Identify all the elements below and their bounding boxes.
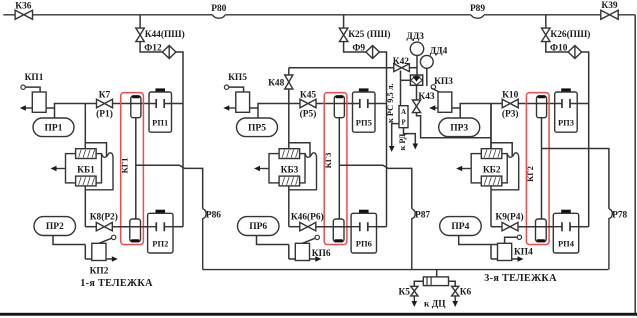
shut-off valve К25 (ПШ) [339,28,348,41]
wire: main line node to К45 [258,104,300,119]
svg-text:КП6: КП6 [312,249,331,259]
svg-text:ПР3: ПР3 [450,124,468,134]
valve К10 ((Р3)) [502,99,518,108]
wire: drop from supply pipe to К44(ПШ) [139,15,141,28]
wire: side branch to КБ1 hose [85,143,106,156]
shut-off valve К44(ПШ) [136,28,145,41]
lower brake-pipe bus [203,269,609,271]
wire: AP stem to check valve [401,79,411,81]
hose sag P89 [471,15,484,18]
svg-text:ДД3: ДД3 [406,32,424,42]
upper shoe of КБ2 [481,149,502,159]
wire: КП5 to node [250,107,258,109]
vent arrow of КБ3 [258,168,269,170]
wire: К26(ПШ) to filter Ф10 [546,42,568,52]
wire: К9(Р4) to relay РП4 [518,226,561,228]
bottom frame line [0,313,637,316]
valve K36 [15,10,32,19]
wire: K43 down to KB2 feed line [417,113,492,138]
right border drop of supply pipe [634,15,636,314]
svg-text:3-я ТЕЛЕЖКА: 3-я ТЕЛЕЖКА [484,273,557,284]
svg-text:К25 (ПШ): К25 (ПШ) [348,29,390,40]
hose sag P80 [213,15,226,18]
valve K48 [285,75,293,89]
discharge arrow below K5 [413,296,415,303]
upper piston of КГ2 [537,96,547,118]
axle cylinder unit [423,277,448,286]
wire: column to К46(Р6) [289,226,300,228]
svg-text:КП2: КП2 [90,266,109,276]
pressure sensor DD3 [416,55,418,75]
wire: column to К8(Р2) [85,226,96,228]
svg-text:ПР2: ПР2 [46,222,64,232]
lower shoe of КБ1 [76,176,97,186]
svg-text:К42: К42 [393,57,409,67]
wire: КП3 to node [452,107,460,109]
wire: check valve to K43 [416,85,418,100]
svg-text:К10: К10 [502,90,518,100]
svg-text:К26(ПШ): К26(ПШ) [550,29,590,40]
pilot circle of КП3 [431,85,435,89]
wire: ПР2 to brake column [53,236,85,245]
air distributor ПР3 [439,118,480,137]
lower piston of КГ2 [536,219,547,242]
wire: column elbow to КП4 outlet [490,245,492,260]
svg-text:Р87: Р87 [415,211,430,221]
svg-text:ПР6: ПР6 [249,222,267,232]
pilot circle of КП5 [224,85,228,89]
lower shoe of КБ3 [279,176,300,186]
pressure relay РП4 [561,210,571,214]
svg-text:Р78: Р78 [612,211,627,221]
wire: left outlet to K5 [414,281,423,286]
wire: K48 to main line [288,89,290,104]
pressure relay РП2 [156,210,166,214]
wire: column elbow to КП6 outlet [288,245,290,260]
valve К9(Р4) [502,222,518,231]
pressure relay РП1 [155,88,165,92]
vent arrow of КП2 [85,258,114,260]
air distributor ПР5 [237,118,278,137]
svg-text:К5: К5 [399,287,411,297]
wire: РП6 to manifold foot [377,226,387,228]
svg-text:(Р1): (Р1) [96,109,113,120]
vent arrow of КБ1 [55,168,66,170]
svg-text:К39: К39 [601,1,617,11]
hose loop of КБ2 [506,153,508,155]
wire: filter Ф12 output down to manifold [176,52,183,227]
check valve (square with poppet) [410,75,422,85]
svg-text:КБ3: КБ3 [281,165,299,175]
autobrake regulator AP [400,71,402,106]
wire: right outlet to K6 [449,281,456,286]
wire: РП2 to manifold foot [173,226,183,228]
wire: main line node to К10 [460,104,502,119]
valve K43 [412,100,420,113]
valve К46(Р6) [300,222,316,231]
wire: К46(Р6) to relay РП6 [316,226,359,228]
piston rod of КГ3 [338,118,340,219]
wire: bus tap to axle cylinder unit [436,270,438,277]
wire: КБ2 down to К9(Р4) [490,186,492,227]
wire: К44(ПШ) to filter Ф12 [140,42,162,52]
svg-text:Р89: Р89 [470,4,485,14]
pressure switch КП6 [295,243,309,260]
junction: brake branch at x=491 [490,104,492,149]
svg-text:Р80: Р80 [211,4,226,14]
wire: K42 line corner to K48 [288,68,290,76]
upper piston of КГ1 [131,96,141,118]
wire: rod tap to hose Р87 [339,165,412,209]
filter Ф12 [162,46,176,59]
svg-text:РП1: РП1 [152,118,168,128]
pilot circle of КП1 [21,85,25,89]
valve К7 ((Р1)) [97,99,113,108]
svg-text:ДД4: ДД4 [430,46,448,56]
vent arrow of КП5 [227,107,236,109]
brake unit КБ3 [269,154,305,183]
wire: K42 to DD junction [409,67,417,69]
svg-text:к РС 9,5 л.: к РС 9,5 л. [386,83,395,123]
wire: ПР4 to brake column [459,236,491,245]
svg-text:(Р5): (Р5) [300,109,317,120]
svg-text:КБ2: КБ2 [483,165,501,175]
pressure relay РП5 [359,88,369,92]
svg-text:1-я ТЕЛЕЖКА: 1-я ТЕЛЕЖКА [80,278,153,289]
svg-text:Ф12: Ф12 [144,44,162,54]
air distributor ПР1 [33,118,74,137]
vent arrow of КП3 [433,107,438,109]
svg-text:Р86: Р86 [206,211,221,221]
svg-text:Р: Р [402,120,406,127]
svg-text:КП5: КП5 [228,73,247,83]
brake unit КБ2 [471,154,507,183]
pressure relay РП3 [561,88,571,92]
vent arrow of КП4 [491,258,520,260]
wire: РП1 to manifold [172,103,184,105]
vent arrow of КП6 [289,258,318,260]
air distributor ПР4 [440,217,482,236]
pressure switch КП3 [438,92,452,112]
svg-text:К6: К6 [460,287,472,297]
junction: brake branch at x=289 [288,104,290,149]
piston rod of КГ1 [135,118,137,219]
pilot lever of КП4 [505,237,518,243]
wire: column elbow to КП2 outlet [84,245,86,260]
vent arrow of КП1 [24,107,33,109]
svg-text:к ДЦ: к ДЦ [424,300,446,310]
pilot lever of КП2 [99,238,112,243]
air distributor ПР6 [238,217,280,236]
wire: side branch to КБ3 hose [289,143,310,156]
svg-text:КП1: КП1 [25,73,44,83]
pressure switch КП1 [32,92,46,112]
brake cylinder group КГ1 (red outline) [121,93,144,245]
wire: KB2 feed vertical (3rd bogie) [490,104,492,149]
wire: K42 distribution line [289,67,394,69]
lower piston of КГ1 [130,219,141,242]
wire: PR4 line extension to KP4 [491,244,498,246]
valve K5 [411,286,418,296]
piston rod of КГ2 [541,118,543,219]
pressure relay РП6 [359,210,369,214]
hose joint Р87 [412,209,415,270]
wire: filter Ф10 output down to manifold [582,52,589,227]
pressure sensor DD4 [426,68,428,86]
svg-text:РП2: РП2 [152,239,168,249]
svg-text:КБ1: КБ1 [77,165,95,175]
shut-off valve К26(ПШ) [542,28,551,41]
svg-text:ПР1: ПР1 [45,124,63,134]
svg-text:Ф10: Ф10 [550,44,568,54]
wire: column to К9(Р4) [491,226,502,228]
vent arrow of КБ2 [460,168,471,170]
lower shoe of КБ2 [481,176,502,186]
wire: КП1 to node [46,107,54,109]
svg-text:К45: К45 [300,90,316,100]
wire: rod tap to hose Р78 [542,149,609,209]
svg-text:К46(Р6): К46(Р6) [291,211,324,222]
svg-text:(Р3): (Р3) [502,109,519,120]
wire: pilot lever of КП3 [431,88,439,92]
brake cylinder group КГ3 (red outline) [324,93,347,245]
brake unit КБ1 [66,154,102,183]
upper shoe of КБ1 [76,149,97,159]
svg-text:РП5: РП5 [356,118,372,128]
supply pipe (top feeder line) [3,14,212,16]
wire and arrow: to regulator RD [404,128,416,144]
wire: РП5 to manifold [375,103,387,105]
wire: side branch to КБ2 hose [491,143,512,156]
svg-text:К8(Р2): К8(Р2) [90,211,118,222]
wire: КБ3 down to К46(Р6) [288,186,290,227]
pressure switch КП5 [236,92,250,112]
filter Ф10 [568,46,582,59]
upper piston of КГ3 [334,96,344,118]
discharge arrow below K6 [454,296,456,303]
svg-text:к РД: к РД [398,133,407,150]
wire: rod tap to hose Р86 [136,165,203,209]
svg-text:А: А [401,109,406,116]
wire and arrow: to reservoir RS 9.5 l [392,124,399,146]
hose joint Р86 [203,209,206,270]
air distributor ПР2 [34,217,76,236]
valve К45 ((Р5)) [300,99,316,108]
wire: pilot lever of КП1 [25,87,40,92]
svg-text:КП3: КП3 [434,77,453,87]
svg-text:РП6: РП6 [356,239,372,249]
svg-text:РП4: РП4 [558,239,575,249]
wire: drop from supply pipe to К26(ПШ) [545,15,547,28]
hose loop of КБ1 [101,153,103,155]
wire: К7 to relay РП1 [113,103,157,105]
wire: filter Ф9 output down to manifold [379,52,386,227]
svg-text:КГ2: КГ2 [525,166,535,182]
lower piston of КГ3 [333,219,344,242]
junction: brake branch at x=85 [84,104,86,149]
svg-text:К44(ПШ): К44(ПШ) [145,29,185,40]
svg-text:К43: К43 [418,92,434,102]
brake cylinder group КГ2 (red outline) [526,93,549,245]
wire: КБ1 down to К8(Р2) [84,186,86,227]
svg-text:Ф9: Ф9 [352,44,365,54]
hose loop of КБ3 [304,153,306,155]
svg-text:ПР4: ПР4 [451,222,469,232]
upper shoe of КБ3 [279,149,300,159]
wire: pilot lever of КП5 [229,87,244,92]
svg-text:КГ3: КГ3 [323,153,333,169]
wire: К45 to relay РП5 [316,103,360,105]
wire: РП3 to manifold [577,103,589,105]
valve K6 [452,286,459,296]
svg-text:К7: К7 [99,90,111,100]
svg-text:РП3: РП3 [558,118,574,128]
filter Ф9 [366,46,380,59]
pressure switch КП4 [498,243,512,260]
valve К8(Р2) [96,222,112,231]
svg-text:К9(Р4): К9(Р4) [495,211,523,222]
wire: К10 to relay РП3 [518,103,562,105]
wire: РП4 to manifold foot [579,226,589,228]
svg-text:КГ1: КГ1 [120,158,130,174]
wire: К8(Р2) to relay РП2 [112,226,155,228]
svg-text:К48: К48 [268,78,284,88]
hose joint Р78 [609,209,612,270]
valve K42 [394,64,410,72]
wire: drop from supply pipe to К25 (ПШ) [343,15,345,28]
svg-text:К36: К36 [15,2,31,12]
pressure switch КП2 [92,243,106,260]
wire: К25 (ПШ) to filter Ф9 [344,42,366,52]
wire: main line node to К7 [55,104,97,119]
svg-text:КП4: КП4 [514,247,533,257]
wire: ПР6 to brake column [257,236,289,245]
svg-text:ПР5: ПР5 [248,124,266,134]
pilot lever of КП6 [302,238,315,243]
valve K39 [601,10,618,19]
